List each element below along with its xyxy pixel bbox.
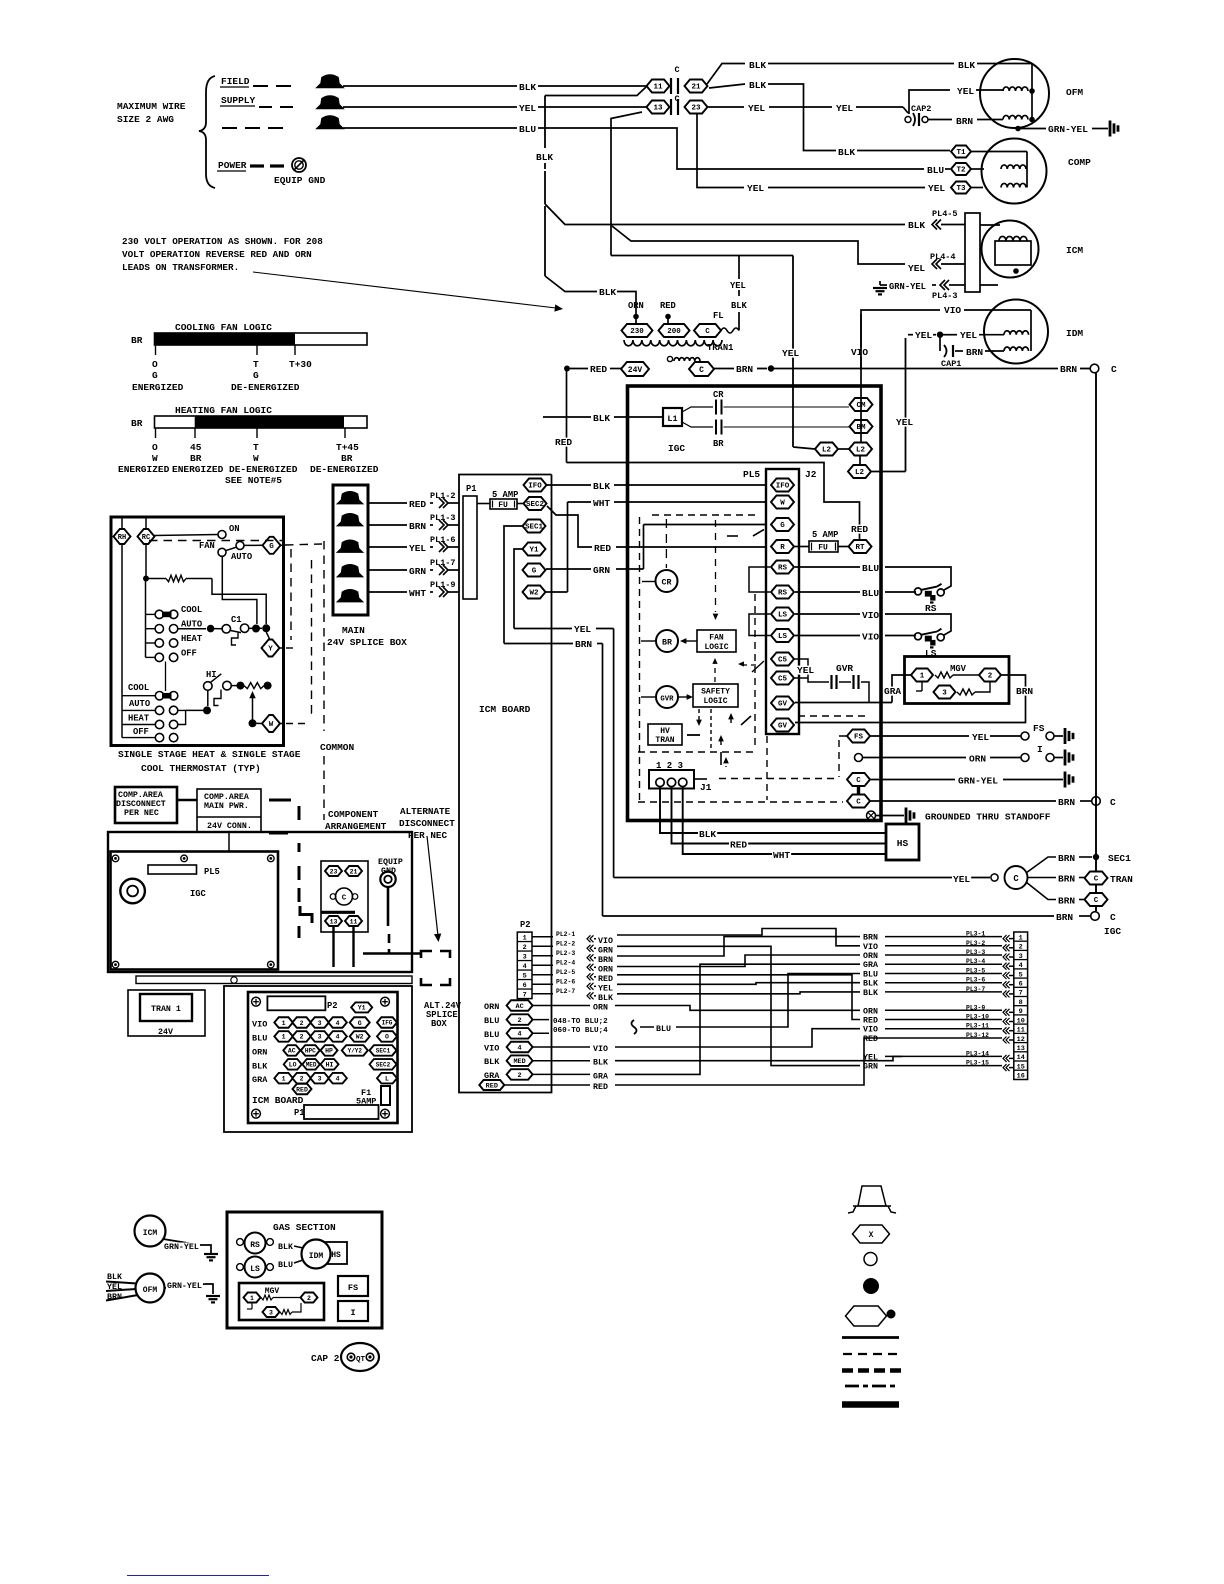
terminal C gnd row	[847, 773, 870, 786]
equip gnd dash drop	[388, 934, 391, 953]
svg-text:P1: P1	[466, 484, 477, 494]
svg-text:LOGIC: LOGIC	[703, 697, 727, 706]
svg-text:ORN: ORN	[628, 301, 644, 311]
wire BRN fan bottom	[1026, 882, 1056, 900]
wire YEL to common C circle	[614, 877, 990, 879]
thermostat resistor branch	[145, 544, 147, 579]
svg-text:BLU: BLU	[484, 1030, 499, 1040]
wire BLK aux	[533, 1060, 590, 1062]
wire nut splice 4	[338, 565, 363, 577]
svg-text:PL4-4: PL4-4	[930, 252, 956, 262]
svg-text:FIELD: FIELD	[221, 76, 250, 87]
svg-text:BRN: BRN	[966, 347, 983, 358]
main board outline	[628, 386, 882, 821]
svg-text:ICM BOARD: ICM BOARD	[479, 704, 531, 715]
svg-text:W: W	[152, 453, 158, 464]
svg-text:BLK: BLK	[863, 989, 878, 998]
svg-text:FAN: FAN	[199, 541, 215, 551]
svg-text:YEL: YEL	[797, 665, 814, 676]
dashed arrow into FAN LOGIC	[715, 520, 717, 612]
wire nut splice 3	[338, 540, 363, 552]
wire BRN PL2-3	[532, 955, 553, 957]
svg-text:BLK: BLK	[731, 301, 748, 311]
svg-text:GV: GV	[778, 723, 788, 731]
svg-text:2: 2	[300, 1076, 304, 1083]
svg-text:Y: Y	[268, 646, 273, 654]
svg-text:ICM BOARD: ICM BOARD	[252, 1095, 304, 1106]
limit switch LS	[915, 633, 922, 640]
wire GRN G to J2 G	[546, 568, 591, 570]
wire BLK PL3-7	[965, 986, 986, 992]
svg-text:24V CONN.: 24V CONN.	[207, 822, 252, 831]
terminal FS	[847, 730, 870, 743]
svg-text:TRAN: TRAN	[1110, 874, 1133, 885]
svg-text:BLU: BLU	[656, 1025, 671, 1034]
svg-text:3: 3	[318, 1034, 322, 1041]
svg-text:BLU: BLU	[863, 971, 878, 980]
box HV TRAN	[648, 724, 682, 745]
svg-text:COOL: COOL	[181, 605, 202, 615]
svg-text:BLK: BLK	[749, 60, 766, 71]
contactor coil C	[336, 888, 353, 905]
wire RED 24V to RT	[566, 371, 568, 463]
svg-text:YEL: YEL	[960, 330, 977, 341]
svg-text:BRN: BRN	[1060, 364, 1077, 375]
svg-text:ORN: ORN	[252, 1047, 267, 1057]
P2 connector rect	[267, 996, 325, 1010]
svg-text:BLK: BLK	[484, 1057, 500, 1067]
terminal 23	[685, 101, 708, 114]
wire GRN-YEL OFM ground	[165, 1284, 206, 1288]
terminal T1	[951, 146, 971, 158]
panel hexagon RED	[293, 1084, 312, 1095]
heating bar ticks	[155, 428, 157, 438]
svg-text:SINGLE STAGE HEAT & SINGLE STA: SINGLE STAGE HEAT & SINGLE STAGE	[118, 749, 301, 760]
svg-text:YEL: YEL	[748, 103, 765, 114]
terminal W2 P1	[523, 586, 546, 599]
legend solid line	[842, 1336, 899, 1339]
TRAN 1 box	[140, 994, 192, 1021]
svg-text:C5: C5	[778, 676, 788, 684]
MGV resistor 1-2	[935, 672, 953, 678]
I box gas	[338, 1301, 368, 1321]
svg-text:MAIN PWR.: MAIN PWR.	[204, 802, 249, 811]
HS box gas	[326, 1242, 347, 1264]
wire RED PL1-2	[368, 502, 407, 504]
svg-text:EQUIP: EQUIP	[378, 858, 403, 867]
svg-text:IGC: IGC	[1104, 926, 1121, 937]
svg-text:BR: BR	[713, 439, 724, 449]
harness wire 7	[617, 992, 860, 994]
terminal RT	[849, 540, 872, 553]
svg-text:DE-ENERGIZED: DE-ENERGIZED	[231, 382, 300, 393]
svg-text:AUTO: AUTO	[129, 699, 150, 709]
svg-text:BLU: BLU	[862, 563, 879, 574]
svg-text:BRN: BRN	[598, 956, 613, 965]
relay coil GVR	[656, 686, 678, 708]
svg-text:BLK: BLK	[278, 1243, 293, 1252]
arrow FAN LOGIC to BR	[684, 640, 697, 642]
harness wire 5	[676, 974, 860, 1028]
svg-text:BR: BR	[662, 639, 672, 648]
svg-text:C1: C1	[231, 615, 242, 625]
svg-text:T2: T2	[956, 167, 966, 175]
svg-text:HEAT: HEAT	[128, 714, 150, 724]
diagonal stub C5	[752, 661, 764, 672]
svg-text:GAS SECTION: GAS SECTION	[273, 1222, 336, 1233]
transformer TRAN1 primary coil	[624, 340, 722, 346]
svg-text:PL1-7: PL1-7	[430, 558, 456, 568]
wire WHT J1 to HS	[683, 786, 886, 854]
contactor leads down	[332, 926, 334, 967]
bracket RS pair	[749, 567, 770, 592]
stub FS hexagon	[839, 735, 847, 737]
box SAFETY LOGIC	[693, 684, 738, 707]
svg-text:ENERGIZED: ENERGIZED	[132, 382, 184, 393]
dashed vertical c	[323, 541, 325, 731]
wire GRA aux	[533, 1073, 590, 1075]
svg-text:WHT: WHT	[409, 588, 426, 599]
svg-text:BLK: BLK	[958, 60, 975, 71]
node dot RED	[665, 314, 671, 320]
svg-text:RED: RED	[590, 364, 607, 375]
terminal G J2 y524.5	[771, 518, 794, 531]
svg-text:T1: T1	[956, 149, 966, 157]
svg-text:G: G	[780, 522, 785, 530]
svg-text:BLU: BLU	[519, 124, 536, 135]
fan switch contacts	[218, 531, 226, 539]
IGC board inner	[111, 852, 279, 970]
svg-text:RED: RED	[863, 1017, 878, 1026]
svg-text:ORN: ORN	[593, 1004, 608, 1013]
svg-text:21: 21	[350, 868, 358, 875]
ignitor switch I	[1021, 754, 1029, 762]
wire YEL CAP2 to OFM coil	[909, 90, 950, 114]
arrow to anticipator	[249, 691, 256, 698]
wire BLK to transformer primary	[544, 206, 546, 276]
terminal T2	[951, 163, 971, 175]
svg-text:IDM: IDM	[1066, 328, 1083, 339]
riser resistor to dot2	[212, 579, 266, 625]
svg-text:BR: BR	[190, 453, 202, 464]
harness wire 12	[615, 1056, 902, 1060]
svg-text:BRN: BRN	[956, 116, 973, 127]
svg-text:FU: FU	[818, 544, 828, 553]
svg-text:23: 23	[330, 868, 338, 875]
ICM motor circle	[980, 224, 1000, 226]
dashed feed CR	[665, 519, 667, 568]
legend hexagon with node	[846, 1306, 887, 1326]
terminal RS J2 y567	[771, 561, 794, 574]
IDM motor circle	[984, 300, 1048, 364]
MGV terminal 1	[911, 669, 933, 682]
svg-text:RS: RS	[778, 590, 788, 598]
svg-text:1: 1	[250, 1295, 254, 1302]
wire BRN MGV to GV	[795, 675, 1026, 723]
svg-text:C: C	[856, 777, 861, 785]
svg-text:TRAN 1: TRAN 1	[151, 1005, 181, 1014]
ICM board P1 box outline	[459, 475, 552, 1093]
terminal 21	[685, 80, 708, 93]
svg-text:BLK: BLK	[519, 82, 536, 93]
wire RED SEC2 to R	[547, 506, 592, 547]
svg-text:2: 2	[307, 1295, 311, 1302]
svg-text:BLU: BLU	[484, 1016, 499, 1026]
svg-text:C: C	[1094, 876, 1099, 884]
dash right of HV TRAN	[687, 734, 700, 736]
wire GRN PL2-2	[532, 945, 553, 947]
wire BLU PL3-5	[965, 968, 986, 974]
contact CR to CM	[682, 407, 713, 412]
svg-text:IGC: IGC	[190, 889, 207, 899]
svg-text:PL1-9: PL1-9	[430, 580, 456, 590]
wire L2 to IDM yellow riser	[871, 471, 906, 473]
svg-text:BLU: BLU	[927, 165, 944, 176]
svg-text:ENERGIZED: ENERGIZED	[118, 464, 170, 475]
svg-text:C: C	[1013, 874, 1019, 884]
wire YEL junction to IDM	[908, 334, 913, 336]
svg-text:BLK: BLK	[593, 1059, 608, 1068]
wire YEL from 23 to T3	[697, 113, 744, 188]
dashed field wire	[253, 85, 268, 87]
wire BLK from 21 to COMP T1	[709, 84, 745, 88]
harness wire 3	[617, 955, 860, 967]
svg-text:GRA: GRA	[593, 1072, 608, 1081]
svg-text:DE-ENERGIZED: DE-ENERGIZED	[229, 464, 298, 475]
wire VIO PL2-1	[532, 936, 553, 938]
MGV gas terminal 1	[244, 1293, 261, 1303]
wire BLK PL3-6	[965, 977, 986, 983]
svg-text:IGC: IGC	[668, 443, 685, 454]
PL3 pin boxes	[1014, 932, 1028, 1080]
wire SEC1 riser	[504, 526, 522, 644]
wire branch to PL4-4	[612, 226, 905, 264]
svg-text:C: C	[1110, 797, 1116, 808]
bridge auto-heat lower	[178, 710, 186, 724]
svg-text:11: 11	[350, 918, 358, 925]
terminal IFO P1	[524, 479, 547, 492]
wire BRN IGC common	[603, 915, 1055, 917]
wire ORN PL3-9	[965, 1004, 986, 1010]
wire RED PL2-5	[532, 974, 553, 976]
legend wire nut	[858, 1186, 886, 1206]
terminal SEC2 P1	[524, 497, 547, 510]
legend hexagon X	[853, 1225, 890, 1243]
wire YEL FS to flame switch	[870, 735, 969, 737]
legend dashed line thick	[842, 1368, 901, 1373]
riser fan auto to dot1	[222, 556, 257, 624]
wire GRN-YEL to ground	[870, 779, 955, 781]
capacitor CAP1	[939, 337, 941, 351]
svg-text:GV: GV	[778, 701, 788, 709]
svg-text:BRN: BRN	[1016, 686, 1033, 697]
equip gnd screw symbol	[292, 158, 306, 172]
wire ORN I row	[863, 757, 967, 759]
svg-text:MAIN: MAIN	[342, 625, 365, 636]
svg-text:PL2-1: PL2-1	[556, 931, 575, 938]
svg-text:1: 1	[920, 673, 925, 681]
svg-text:13: 13	[653, 105, 663, 113]
svg-text:BLK: BLK	[598, 994, 613, 1003]
terminal L2 a	[815, 443, 838, 456]
wire GRN-YEL OFM to ground	[1020, 128, 1046, 130]
svg-text:ORN: ORN	[484, 1002, 499, 1012]
svg-text:SEC1: SEC1	[376, 1048, 391, 1055]
svg-text:BLK: BLK	[908, 220, 925, 231]
wire RED secondary	[564, 366, 570, 372]
svg-text:YEL: YEL	[519, 103, 536, 114]
svg-text:YEL: YEL	[747, 183, 764, 194]
COMP motor circle	[982, 139, 1047, 204]
wire BRN CAP2 to OFM coil	[928, 119, 952, 121]
svg-text:RED: RED	[409, 499, 426, 510]
svg-text:RS: RS	[778, 565, 788, 573]
wire BRN secondary common	[714, 368, 734, 370]
harness wire 4	[615, 964, 860, 1074]
svg-text:MED: MED	[513, 1058, 525, 1066]
svg-text:OFM: OFM	[143, 1286, 158, 1295]
wire BLK IFO to J2	[547, 484, 591, 486]
svg-text:COMP.AREA: COMP.AREA	[118, 791, 163, 800]
link main pwr box down	[228, 832, 230, 851]
svg-text:24V SPLICE BOX: 24V SPLICE BOX	[327, 637, 407, 648]
svg-text:O: O	[152, 442, 158, 453]
svg-text:BLK: BLK	[599, 287, 616, 298]
svg-text:SEC1: SEC1	[525, 524, 544, 532]
grommet circle	[120, 879, 145, 904]
svg-text:RS: RS	[250, 1241, 260, 1250]
wire YEL/BLK drop to FL	[738, 312, 740, 331]
svg-text:PL2-3: PL2-3	[556, 950, 575, 957]
svg-text:MAXIMUM WIRE: MAXIMUM WIRE	[117, 101, 186, 112]
svg-text:DISCONNECT: DISCONNECT	[399, 818, 455, 829]
ICM panel inner	[248, 992, 398, 1123]
thick dash boundary near comp area	[269, 799, 291, 802]
svg-text:WHT: WHT	[773, 850, 790, 861]
svg-text:HS: HS	[331, 1251, 341, 1260]
svg-text:W2: W2	[356, 1034, 364, 1041]
svg-text:P1: P1	[294, 1108, 305, 1118]
svg-text:OFF: OFF	[133, 727, 149, 737]
svg-text:SEC1: SEC1	[1108, 853, 1131, 864]
svg-text:RED: RED	[660, 301, 676, 311]
svg-text:LOGIC: LOGIC	[704, 643, 728, 652]
terminal GV J2 y703	[771, 697, 794, 710]
terminal 200	[659, 324, 690, 337]
svg-text:P2: P2	[327, 1001, 338, 1011]
svg-text:T: T	[253, 359, 259, 370]
svg-text:COMMON: COMMON	[320, 742, 355, 753]
dashed third wire	[222, 127, 237, 129]
svg-text:Y/Y2: Y/Y2	[348, 1048, 363, 1055]
svg-text:IDM: IDM	[309, 1252, 324, 1261]
terminal IFO J2 y485	[771, 479, 794, 492]
harness wire 8	[615, 1006, 860, 1011]
svg-text:PL1-3: PL1-3	[430, 513, 456, 523]
svg-text:MGV: MGV	[265, 1287, 280, 1296]
svg-text:BLK: BLK	[749, 80, 766, 91]
pressure switch RS	[915, 588, 922, 595]
svg-text:T+30: T+30	[289, 359, 312, 370]
svg-text:ARRANGEMENT: ARRANGEMENT	[325, 821, 387, 832]
dashed logic enclosure	[639, 517, 641, 802]
svg-text:BLK: BLK	[863, 980, 878, 989]
terminal LS J2 y635.5	[771, 629, 794, 642]
svg-text:BR: BR	[341, 453, 353, 464]
svg-text:PL2-6: PL2-6	[556, 978, 575, 985]
svg-text:ORN: ORN	[969, 754, 986, 765]
svg-text:OFF: OFF	[181, 649, 197, 659]
transformer secondary coil	[667, 356, 672, 361]
svg-text:FS: FS	[348, 1283, 358, 1293]
contactor terminal 11	[345, 916, 362, 926]
link L2a-L2b	[838, 448, 849, 450]
svg-text:BRN: BRN	[1058, 797, 1075, 808]
wire BLU RS row1	[795, 566, 860, 568]
svg-text:SEC2: SEC2	[526, 501, 545, 509]
svg-text:BLU: BLU	[862, 588, 879, 599]
wire W2 riser	[567, 502, 569, 592]
svg-text:060-TO BLU;4: 060-TO BLU;4	[553, 1027, 608, 1035]
svg-text:G: G	[269, 543, 274, 551]
svg-text:POWER: POWER	[218, 160, 247, 171]
wire BRN C row to right	[870, 800, 1056, 802]
node I row	[855, 754, 863, 762]
wire BRN fan top SEC1	[1026, 857, 1056, 873]
wire WHT W to J2	[568, 501, 592, 503]
svg-text:Y1: Y1	[358, 1005, 366, 1012]
harness wire 13	[617, 946, 860, 1065]
svg-text:2: 2	[300, 1020, 304, 1027]
wire nut supply YEL	[317, 96, 343, 109]
svg-text:RH: RH	[118, 534, 126, 542]
legend very thick line	[842, 1401, 899, 1408]
dashed boundary lower	[323, 756, 325, 820]
svg-text:1: 1	[282, 1076, 286, 1083]
wire GRN-YEL ICM ground	[163, 1239, 200, 1245]
terminal 24V	[621, 362, 649, 376]
node dot ORN	[633, 314, 639, 320]
svg-text:W2: W2	[529, 590, 539, 598]
heating fan logic bar	[155, 416, 368, 428]
wire nut BLU	[317, 116, 343, 129]
MGV resistor 3	[957, 689, 975, 695]
svg-text:IFO: IFO	[776, 483, 790, 491]
svg-text:LO: LO	[289, 1062, 297, 1069]
wire BRN PL3-1	[965, 931, 986, 937]
wire VIO LS row1	[795, 613, 860, 615]
svg-text:AC: AC	[288, 1048, 296, 1055]
terminal C5 J2 y659	[771, 653, 794, 666]
svg-text:LS: LS	[778, 633, 788, 641]
svg-text:DISCONNECT: DISCONNECT	[116, 800, 166, 809]
svg-text:GRN: GRN	[409, 566, 426, 577]
wire BLU RS row2	[795, 591, 860, 593]
comp area disconnect box	[115, 787, 177, 823]
wire GV to MGV hexagon 1	[795, 702, 892, 704]
svg-text:T: T	[253, 442, 259, 453]
terminal C secondary	[689, 362, 714, 376]
comp area main pwr box	[197, 789, 261, 832]
wire BRN SEC1 to bottom	[504, 643, 573, 645]
svg-text:AC: AC	[516, 1003, 524, 1011]
legend dash dot line	[845, 1385, 898, 1388]
PL4 connector	[965, 213, 980, 292]
svg-text:C: C	[699, 366, 704, 375]
svg-text:PL5: PL5	[743, 469, 760, 480]
svg-text:230: 230	[630, 328, 644, 336]
svg-text:GRA: GRA	[884, 686, 901, 697]
